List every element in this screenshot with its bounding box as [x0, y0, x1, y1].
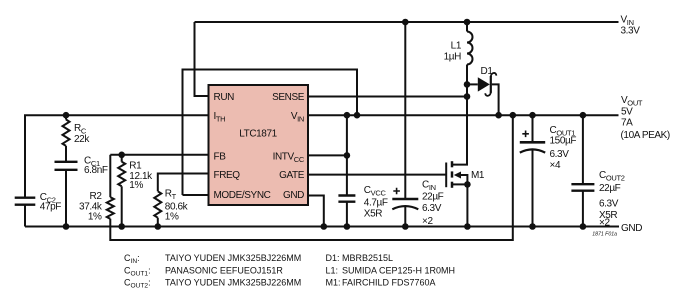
svg-text:M1: M1 — [471, 170, 485, 181]
svg-text:×2: ×2 — [422, 216, 433, 227]
svg-text:SENSE: SENSE — [272, 92, 305, 103]
svg-text:22µF: 22µF — [599, 183, 621, 194]
svg-text:D1: D1 — [481, 66, 494, 77]
svg-text:150µF: 150µF — [550, 136, 577, 147]
svg-text:RUN: RUN — [214, 92, 235, 103]
svg-text:LTC1871: LTC1871 — [239, 129, 277, 140]
svg-text:1%: 1% — [129, 180, 143, 191]
svg-text:22µF: 22µF — [422, 192, 444, 203]
svg-text:1%: 1% — [88, 212, 102, 223]
svg-text:MODE/SYNC: MODE/SYNC — [214, 190, 271, 201]
svg-text:6.3V: 6.3V — [599, 199, 619, 210]
svg-text:(10A PEAK): (10A PEAK) — [621, 130, 670, 141]
svg-text:R1: R1 — [129, 160, 142, 171]
svg-text:6.3V: 6.3V — [422, 203, 442, 214]
svg-text:6.8nF: 6.8nF — [84, 165, 108, 176]
svg-text:X5R: X5R — [364, 208, 382, 219]
svg-text:FREQ: FREQ — [214, 170, 241, 181]
svg-text:1871 F01a: 1871 F01a — [592, 232, 617, 238]
svg-text:4.7µF: 4.7µF — [364, 198, 388, 209]
svg-text:7A: 7A — [621, 118, 633, 129]
svg-text:GATE: GATE — [279, 170, 305, 181]
svg-text:L1:: L1: — [326, 265, 339, 275]
svg-text:1µH: 1µH — [444, 52, 462, 63]
svg-text:SUMIDA CEP125-H 1R0MH: SUMIDA CEP125-H 1R0MH — [342, 265, 455, 275]
svg-text:3.3V: 3.3V — [621, 25, 641, 36]
svg-text:M1:: M1: — [326, 278, 341, 288]
svg-text:1%: 1% — [165, 212, 179, 223]
svg-text:L1: L1 — [451, 41, 462, 52]
svg-text:TAIYO YUDEN JMK325BJ226MM: TAIYO YUDEN JMK325BJ226MM — [165, 278, 301, 288]
svg-text:FAIRCHILD FDS7760A: FAIRCHILD FDS7760A — [342, 278, 436, 288]
svg-text:×4: ×4 — [550, 160, 561, 171]
svg-text:5V: 5V — [621, 106, 633, 117]
svg-text:PANASONIC EEFUEOJ151R: PANASONIC EEFUEOJ151R — [165, 265, 283, 275]
svg-text:GND: GND — [283, 190, 304, 201]
svg-text:D1:: D1: — [326, 253, 340, 263]
svg-text:MBRB2515L: MBRB2515L — [342, 253, 393, 263]
svg-text:22k: 22k — [74, 134, 90, 145]
svg-text:47pF: 47pF — [40, 201, 61, 212]
svg-text:GND: GND — [621, 223, 642, 234]
svg-text:6.3V: 6.3V — [550, 149, 570, 160]
svg-text:×2: ×2 — [599, 218, 610, 229]
svg-text:FB: FB — [214, 151, 227, 162]
svg-text:TAIYO YUDEN JMK325BJ226MM: TAIYO YUDEN JMK325BJ226MM — [165, 253, 301, 263]
